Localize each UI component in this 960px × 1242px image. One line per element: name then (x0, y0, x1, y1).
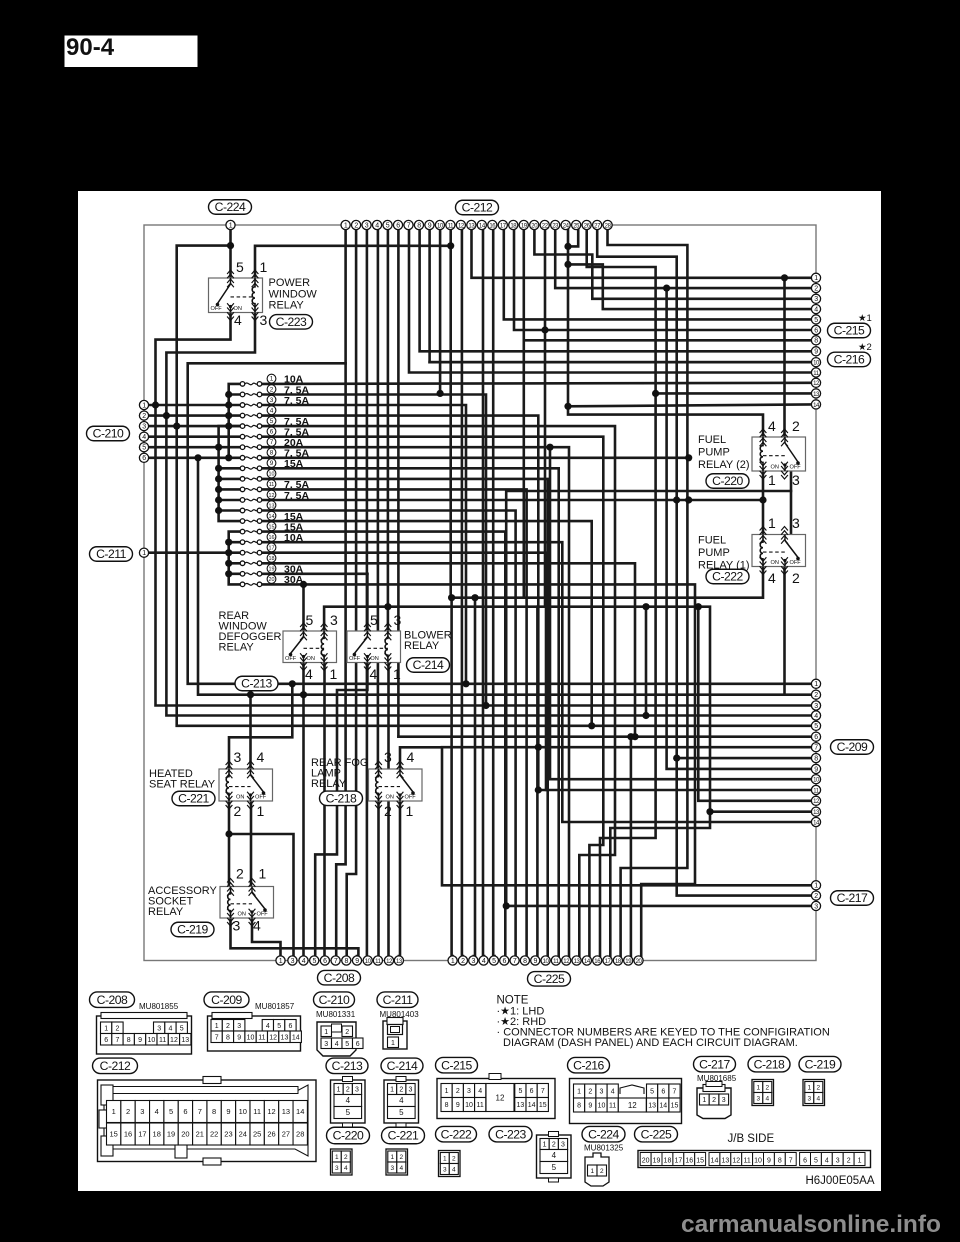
svg-text:1: 1 (324, 1029, 328, 1036)
svg-text:9: 9 (226, 1107, 230, 1116)
svg-text:C-221: C-221 (388, 1129, 419, 1143)
svg-text:6: 6 (270, 428, 274, 435)
relay U-C219 accessory socket (220, 887, 274, 919)
svg-text:1: 1 (215, 1023, 219, 1030)
svg-text:1: 1 (393, 666, 401, 682)
wire heated seat pin2 branch to C-208 pin3 (229, 834, 294, 956)
svg-text:C-220: C-220 (333, 1129, 364, 1143)
svg-text:13: 13 (281, 1034, 289, 1041)
svg-text:2: 2 (234, 803, 242, 819)
wire C-209 row12 branch (698, 607, 811, 801)
svg-text:3: 3 (324, 1041, 328, 1048)
legend J/B SIDE strip (638, 1151, 871, 1168)
svg-text:C-218: C-218 (754, 1057, 785, 1071)
svg-text:C-224: C-224 (215, 200, 246, 214)
svg-text:OFF: OFF (255, 795, 267, 801)
svg-text:2: 2 (814, 286, 818, 293)
wire C-212 pin26 staircase (587, 229, 656, 956)
svg-text:6: 6 (356, 1041, 360, 1048)
svg-text:C-216: C-216 (573, 1058, 604, 1072)
wire fuse bus lower (229, 532, 243, 585)
svg-text:3: 3 (260, 312, 268, 328)
junction bus f5 (225, 423, 232, 430)
wire heated seat pin1 to accessory pin1 (250, 801, 253, 887)
svg-text:1: 1 (858, 1158, 862, 1165)
junction pins24-25 tie (564, 243, 571, 250)
svg-text:21: 21 (196, 1130, 204, 1139)
legend C-217 label (694, 1056, 736, 1072)
connector C-210 terminals (139, 400, 148, 462)
svg-text:5: 5 (346, 1108, 351, 1117)
wire defogger pin4 to C-208 pin4 (302, 663, 305, 957)
wire C-225 pin19 riser (630, 737, 633, 956)
svg-text:C-223: C-223 (276, 315, 307, 329)
svg-text:MU801325: MU801325 (584, 1144, 624, 1153)
svg-text:2: 2 (452, 1156, 456, 1163)
svg-text:1: 1 (702, 1097, 706, 1104)
svg-text:6: 6 (503, 958, 507, 965)
wire C-212 pin20 to C-215 pin3 row (534, 229, 811, 299)
svg-text:24: 24 (239, 1130, 247, 1139)
svg-text:C-219: C-219 (805, 1057, 836, 1071)
svg-text:★2: ★2 (858, 342, 872, 353)
wire rear fog pin2 to C-208 pin11 (377, 801, 380, 956)
svg-text:4: 4 (478, 1088, 482, 1095)
svg-text:C-217: C-217 (837, 891, 868, 905)
wire C-212 pin19 deep (522, 229, 525, 598)
legend C-208 label (90, 992, 135, 1008)
svg-text:13: 13 (282, 1107, 290, 1116)
svg-text:3: 3 (157, 1025, 161, 1032)
connector C-215/C-216 terminals (811, 273, 820, 409)
wire C-212 pin18 to C-215 pin6 row (514, 229, 811, 330)
wire C-216 pin13 row (656, 392, 811, 395)
legend C-210 pinout (317, 1022, 363, 1056)
wire fuse7 output to C-225 pin12 (262, 447, 569, 956)
wire fuel pump relay(1) pin2 to C-209 pin2 (785, 567, 812, 695)
junction bus lower f18 (225, 560, 232, 567)
svg-text:3: 3 (722, 1097, 726, 1104)
svg-text:4: 4 (814, 307, 818, 314)
svg-text:H6J00E05AA: H6J00E05AA (805, 1175, 874, 1187)
svg-text:7: 7 (789, 1158, 793, 1165)
text blower relay (404, 630, 452, 653)
relay C-222 pin labels (768, 515, 800, 586)
wire fuse3 output to C-209 row1 (262, 405, 466, 684)
wire C-212 pin28 staircase fuel pump net (608, 229, 688, 956)
svg-text:4: 4 (452, 1167, 456, 1174)
svg-text:9: 9 (588, 1103, 592, 1110)
connector C-211 label (90, 547, 133, 562)
svg-text:5: 5 (370, 612, 378, 628)
svg-text:5: 5 (814, 1158, 818, 1165)
svg-text:3: 3 (409, 1087, 413, 1094)
svg-text:3: 3 (355, 1087, 359, 1094)
svg-text:ON: ON (771, 465, 779, 471)
junction C-209 row13 / riser (706, 808, 713, 815)
connector C-209 label (831, 740, 874, 755)
wire fuse17 output drop (262, 553, 546, 790)
svg-text:9: 9 (814, 349, 818, 356)
legend C-212 pinout (98, 1077, 317, 1166)
wire fuse1 output to C-216 pin12 (262, 383, 811, 384)
svg-text:7: 7 (541, 1088, 545, 1095)
relay C-221 pin labels (234, 749, 265, 819)
text rear window defogger relay (219, 610, 282, 654)
junction bus mid f9 (215, 465, 222, 472)
svg-text:5: 5 (492, 958, 496, 965)
svg-text:ON: ON (307, 656, 315, 662)
svg-text:RELAY (2): RELAY (2) (698, 459, 750, 471)
svg-text:3: 3 (291, 958, 295, 965)
junction pin3 run / C-209 row12 (695, 603, 702, 610)
svg-text:C-209: C-209 (837, 740, 868, 754)
svg-text:10A: 10A (284, 532, 304, 544)
junction fuse8 / fuel pump net (685, 454, 692, 461)
svg-text:3: 3 (394, 612, 402, 628)
junction pin24 branch (564, 261, 571, 268)
svg-text:17: 17 (269, 546, 275, 552)
svg-text:11: 11 (253, 1107, 261, 1116)
svg-text:8: 8 (445, 1102, 449, 1109)
wire C-209 pin11 row (538, 789, 811, 792)
svg-text:1: 1 (259, 866, 267, 882)
svg-text:C-216: C-216 (834, 353, 865, 367)
connector C-225 terminals (448, 956, 643, 965)
svg-text:3: 3 (142, 424, 146, 431)
legend C-224 part number (584, 1144, 624, 1153)
svg-text:C-208: C-208 (97, 993, 128, 1007)
relay U-C223 power window (209, 278, 263, 313)
legend C-219 pinout (803, 1080, 825, 1106)
wire heated seat pin3 to C-209 row1 (229, 684, 292, 769)
svg-text:3: 3 (365, 222, 369, 229)
svg-text:4: 4 (305, 666, 313, 682)
junction C-217 pin3 bend (503, 902, 510, 909)
svg-text:C-213: C-213 (241, 677, 272, 691)
wire fuse12 output to fuel pump relay coils (262, 499, 763, 502)
svg-text:10: 10 (754, 1158, 762, 1165)
connector C-221 label (172, 791, 215, 806)
svg-text:SEAT RELAY: SEAT RELAY (149, 779, 216, 791)
svg-text:17: 17 (138, 1130, 146, 1139)
svg-text:★1: ★1 (858, 313, 872, 324)
svg-text:2: 2 (354, 222, 358, 229)
wire C-209 row13 branch (710, 810, 811, 813)
junction C-215 pin1 / FP2 pin2 (781, 274, 788, 281)
wire fuse5 output to C-225 pin13 (262, 426, 615, 956)
connector C-222 label (706, 569, 749, 584)
relay C-214 pin arrows (364, 623, 391, 671)
svg-text:2: 2 (399, 1154, 403, 1161)
junction C-209 row2 / heated pin4 (247, 691, 254, 698)
legend C-215 pinout (437, 1074, 555, 1119)
svg-text:3: 3 (814, 296, 818, 303)
svg-text:4: 4 (611, 1089, 615, 1096)
wire C-209 row7 (442, 746, 811, 749)
svg-text:2: 2 (236, 866, 244, 882)
junction FP1 pin4 run / C-225 pin3 (471, 594, 478, 601)
svg-text:14: 14 (711, 1158, 719, 1165)
legend C-214 pinout (384, 1077, 419, 1128)
wire C-212 pin24 to fuel pump relay(2) pin4 (568, 229, 763, 437)
junction C-209 row7 / fuse4 (535, 744, 542, 751)
relay U-C222 fuel pump 1 (752, 535, 806, 567)
svg-text:27: 27 (282, 1130, 290, 1139)
svg-text:1: 1 (390, 1087, 394, 1094)
wire C-212 pin13 to C-215 pin1 row (472, 229, 812, 278)
svg-text:19: 19 (653, 1158, 661, 1165)
svg-text:5: 5 (386, 222, 390, 229)
connector C-215 label (828, 323, 871, 338)
svg-text:18: 18 (664, 1158, 672, 1165)
wire C-209 pin3 riser and row (156, 405, 812, 706)
legend C-225 label (635, 1126, 678, 1142)
svg-text:5: 5 (270, 418, 274, 425)
svg-text:6: 6 (814, 734, 818, 741)
svg-text:23: 23 (224, 1130, 232, 1139)
wire C-212 pin1 branch to C-209 pin1 row (188, 363, 811, 684)
relay U-C214 blower (347, 631, 401, 663)
connector C-212 terminals 1-28 (341, 220, 612, 229)
svg-text:RELAY: RELAY (404, 640, 440, 652)
svg-text:C-214: C-214 (387, 1059, 418, 1073)
legend C-210 part number (316, 1010, 356, 1019)
wire fuel pump relay pins1 link (762, 471, 765, 535)
svg-text:15: 15 (671, 1103, 679, 1110)
legend C-211 label (377, 992, 418, 1008)
relay C-223 pin arrows (227, 270, 258, 321)
svg-text:C-213: C-213 (332, 1059, 363, 1073)
wire fuel pump relay(2) pin3 to C-217 pin3 (506, 471, 811, 906)
connector C-220 label (706, 474, 749, 489)
wire fuse13 left lead (219, 509, 243, 512)
wire C-212 pin22 deep (544, 229, 547, 607)
svg-text:RELAY: RELAY (148, 906, 184, 918)
junction bus lower f16 (225, 539, 232, 546)
svg-text:5: 5 (552, 1163, 557, 1172)
svg-text:5: 5 (142, 445, 146, 452)
svg-text:5: 5 (180, 1025, 184, 1032)
svg-text:14: 14 (659, 1103, 667, 1110)
junction C-209 row8 / pin27 (673, 755, 680, 762)
junction C-209 row11 / fuse4 drop (535, 786, 542, 793)
svg-text:1: 1 (756, 1085, 760, 1092)
junction C-209 row1 / fuse3 (462, 680, 469, 687)
text heated seat relay (149, 768, 216, 791)
wire fuse bus mid (219, 426, 243, 521)
svg-text:10: 10 (247, 1034, 255, 1041)
connector C-213 label (235, 676, 278, 691)
junction bus f2 (225, 391, 232, 398)
junction bus lower C-211 (225, 549, 232, 556)
relay C-218 pin arrows (375, 761, 403, 809)
legend C-216 pinout (570, 1079, 682, 1124)
svg-text:2: 2 (226, 1023, 230, 1030)
svg-text:ON: ON (771, 560, 779, 566)
wire fuse2 output to C-209 row3 (262, 395, 486, 706)
svg-text:carmanualsonline.info: carmanualsonline.info (681, 1211, 941, 1238)
svg-text:7: 7 (198, 1107, 202, 1116)
svg-text:C-218: C-218 (326, 792, 357, 806)
legend C-219 label (799, 1056, 841, 1072)
wire fuse15 output to C-225 pin6 (262, 532, 505, 956)
svg-text:4: 4 (234, 312, 242, 328)
svg-text:8: 8 (127, 1037, 131, 1044)
svg-text:11: 11 (609, 1103, 616, 1110)
svg-text:11: 11 (744, 1158, 751, 1165)
svg-text:12: 12 (170, 1037, 178, 1044)
wire fuse6 output to C-225 pin14 (262, 437, 603, 956)
svg-text:RELAY: RELAY (311, 778, 347, 790)
svg-text:20: 20 (642, 1158, 650, 1165)
svg-text:6: 6 (104, 1037, 108, 1044)
svg-text:C-212: C-212 (100, 1059, 131, 1073)
wire power window relay pin5 feed (229, 246, 232, 278)
svg-text:14: 14 (269, 514, 275, 520)
junction bus f3 (225, 401, 232, 408)
svg-text:8: 8 (523, 958, 527, 965)
connector C-210 label (87, 426, 130, 441)
svg-text:16: 16 (685, 1158, 693, 1165)
wire defogger pin1 to C-208 pin6 (323, 663, 326, 957)
svg-text:2: 2 (346, 1087, 350, 1094)
svg-text:12: 12 (732, 1158, 740, 1165)
svg-text:4: 4 (825, 1158, 829, 1165)
svg-text:2: 2 (461, 958, 465, 965)
junction C-209 row3 / fuse2 (482, 702, 489, 709)
wire fuel pump relay(1) pin3 riser (790, 491, 793, 535)
relay C-220 pin labels (768, 418, 800, 488)
svg-text:11: 11 (258, 1034, 265, 1041)
svg-text:C-225: C-225 (534, 972, 565, 986)
relay C-213 pin labels (305, 612, 338, 682)
junction row2 riser / C-210 pin6 wire (194, 454, 201, 461)
wire C-224 pin1 drop (229, 229, 232, 246)
svg-text:FUEL: FUEL (698, 535, 726, 547)
legend C-223 label (489, 1126, 532, 1142)
wire fuse18 left lead (229, 562, 243, 565)
relay C-221 pin arrows (226, 761, 254, 809)
svg-text:1: 1 (330, 666, 338, 682)
svg-text:5: 5 (399, 1108, 404, 1117)
svg-text:1: 1 (807, 1085, 811, 1092)
svg-text:5: 5 (814, 317, 818, 324)
svg-text:15A: 15A (284, 458, 304, 470)
svg-text:MU801331: MU801331 (316, 1010, 356, 1019)
svg-text:6: 6 (323, 958, 327, 965)
svg-text:1: 1 (142, 550, 146, 557)
svg-text:8: 8 (345, 958, 349, 965)
svg-text:4: 4 (765, 1096, 769, 1103)
svg-text:2: 2 (814, 893, 818, 900)
svg-text:1: 1 (229, 222, 233, 229)
svg-text:5: 5 (312, 958, 316, 965)
legend C-211 part number (380, 1010, 420, 1019)
svg-text:15: 15 (110, 1130, 118, 1139)
wire fuse11 output to C-225 pin8 (262, 489, 527, 956)
svg-text:3: 3 (467, 1088, 471, 1095)
wire C-212 pin14 to C-225 pin4 (483, 229, 484, 956)
junction pin1 run at C-212 pin11 (447, 242, 454, 249)
junction pin4 tie / C-210 pin1 wire (152, 401, 159, 408)
svg-text:3: 3 (384, 749, 392, 765)
svg-text:OFF: OFF (790, 465, 802, 471)
svg-text:PUMP: PUMP (698, 547, 730, 559)
svg-text:2: 2 (712, 1097, 716, 1104)
note star1 (858, 313, 872, 324)
wire blower pin4 to C-208 pin5 (315, 663, 367, 957)
svg-text:C-221: C-221 (178, 792, 209, 806)
relay C-222 pin arrows (760, 527, 788, 575)
legend C-216 label (568, 1057, 610, 1073)
svg-text:3: 3 (792, 515, 800, 531)
svg-text:1: 1 (445, 1088, 449, 1095)
legend C-223 pinout (537, 1132, 572, 1183)
wire C-212 pin4 to rear fog relay pin3 (377, 229, 380, 769)
svg-text:3: 3 (807, 1096, 811, 1103)
svg-text:1: 1 (337, 1087, 341, 1094)
junction pin3 tie / C-210 pin2 wire (163, 412, 170, 419)
relay U-C221 heated seat (219, 769, 273, 801)
connector C-218 label (320, 791, 363, 806)
legend C-218 label (748, 1056, 790, 1072)
relay U-C218 rear fog lamp (369, 769, 423, 801)
svg-text:3: 3 (836, 1158, 840, 1165)
svg-text:9: 9 (456, 1102, 460, 1109)
wire fuse13 output to C-225 pin7 (262, 511, 516, 957)
legend C-209 pinout (208, 1013, 302, 1052)
wire fuel pump relay(2) pin2 feed (783, 278, 786, 437)
svg-text:4: 4 (344, 1165, 348, 1172)
junction pin3 run / row4 riser (642, 603, 649, 610)
connector C-223 label (270, 315, 313, 330)
svg-text:8: 8 (577, 1103, 581, 1110)
svg-text:3: 3 (561, 1142, 565, 1149)
svg-text:2: 2 (588, 1089, 592, 1096)
svg-text:7: 7 (115, 1037, 119, 1044)
svg-text:13: 13 (181, 1037, 189, 1044)
wire fuse9 left lead (219, 467, 243, 470)
svg-text:OFF: OFF (211, 306, 223, 312)
wire C-212 pin27 staircase to C-217 pin2 (597, 229, 811, 896)
svg-text:1: 1 (543, 1142, 547, 1149)
svg-text:C-214: C-214 (413, 658, 444, 672)
svg-text:4: 4 (270, 407, 274, 414)
junction bus f8 (225, 454, 232, 461)
svg-text:9: 9 (237, 1034, 241, 1041)
junction defogger pin3 / blower pin3 (384, 603, 391, 610)
svg-text:13: 13 (269, 503, 275, 509)
legend C-224 pinout (585, 1153, 609, 1186)
relay U-C213 rear window defogger (283, 631, 337, 663)
legend C-218 pinout (752, 1080, 774, 1106)
wire C-210 pin1 to fuse1 bus (148, 404, 243, 407)
relay C-213 pin arrows (300, 623, 327, 671)
svg-text:4: 4 (370, 666, 378, 682)
legend C-210 label (314, 992, 355, 1008)
svg-text:6: 6 (183, 1107, 187, 1116)
svg-text:2: 2 (456, 1088, 460, 1095)
wire C-210 pin6 to fuse8 (148, 456, 243, 459)
svg-text:J/B SIDE: J/B SIDE (728, 1133, 775, 1145)
wire power window relay pin3 to C-210 pin2 row (166, 313, 255, 416)
wire rear fog pin4 to C-217 pin1 (400, 747, 811, 885)
svg-text:1: 1 (142, 402, 146, 409)
wire fuse12 left lead (219, 499, 243, 502)
svg-text:14: 14 (292, 1034, 300, 1041)
junction C-216 pin13 / pin26 (652, 390, 659, 397)
